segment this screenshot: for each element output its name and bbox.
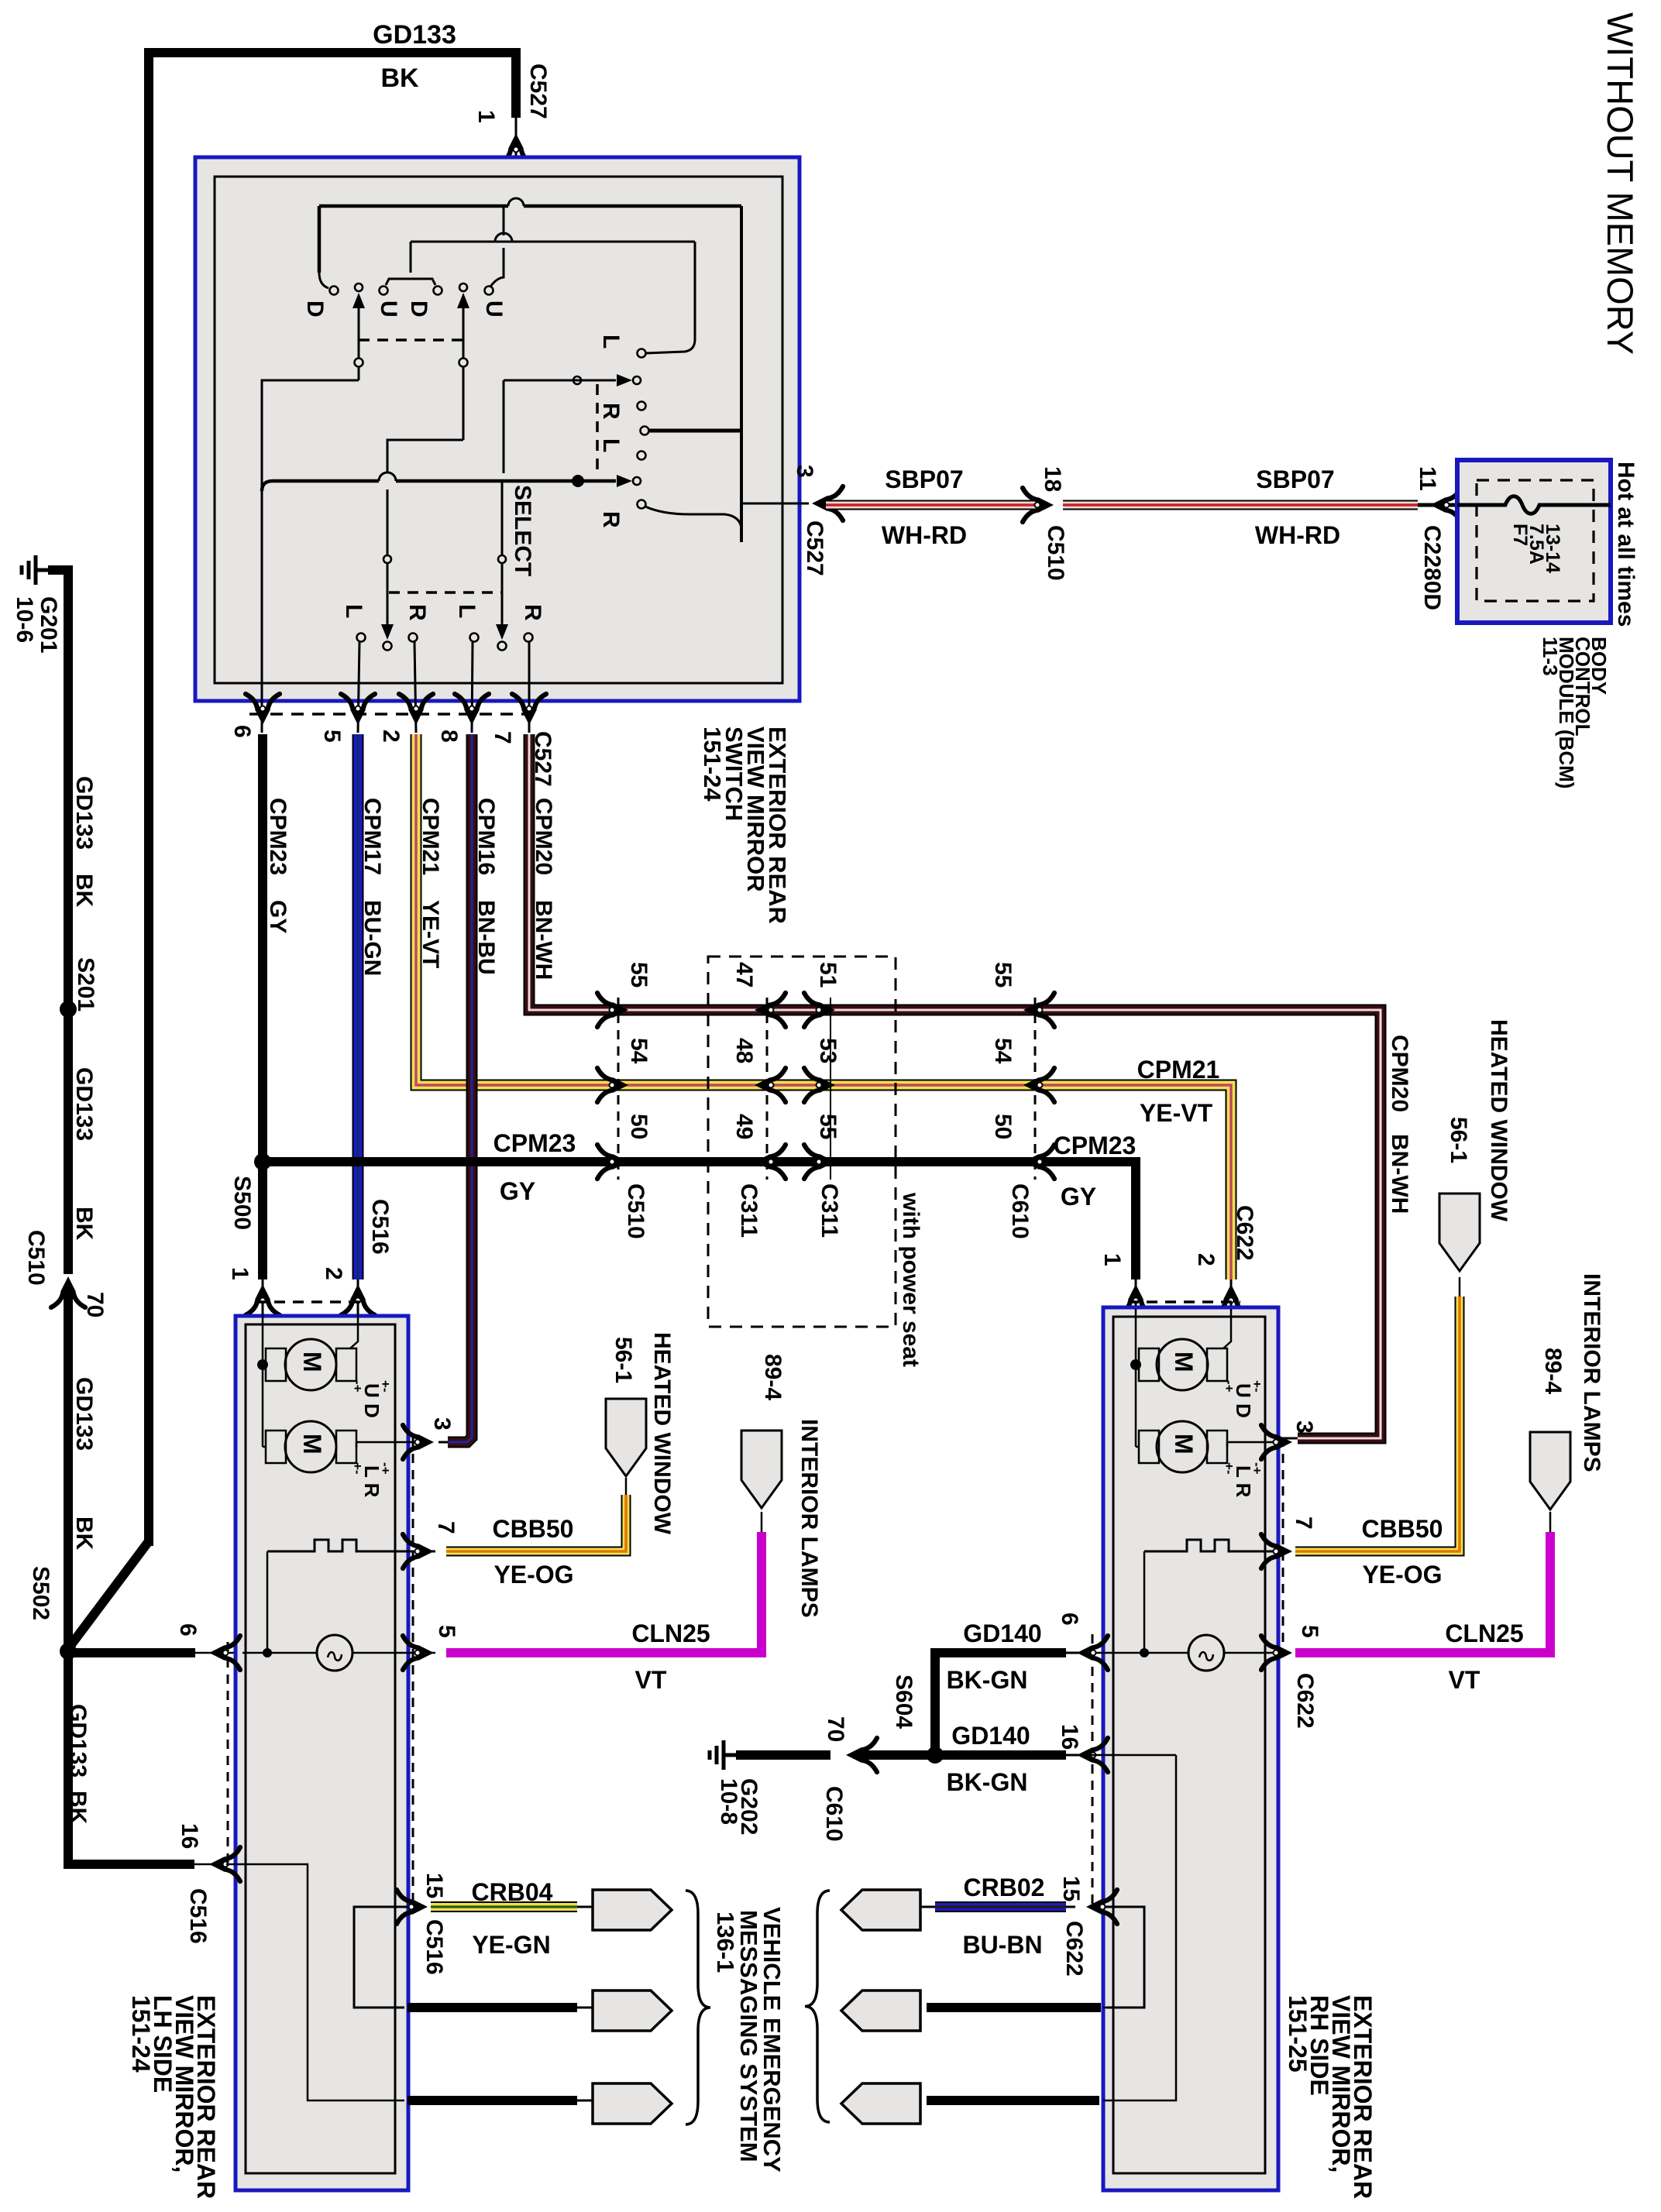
connector arrow 18 C510: [1023, 488, 1054, 522]
svg-text:SBP07: SBP07: [885, 465, 963, 493]
contact R lower: [638, 500, 646, 509]
svg-text:Hot at all times: Hot at all times: [1613, 462, 1639, 627]
connector arrow pin 7: [512, 694, 546, 725]
ground G201: [36, 568, 48, 572]
wire to vems 2: [408, 2003, 577, 2012]
wire CPM23 GY pin6: [258, 734, 267, 1157]
svg-text:CLN25: CLN25: [631, 1619, 710, 1647]
wire switch bus H1: [319, 204, 508, 208]
svg-text:D: D: [406, 301, 432, 318]
connector arrow pin 54: [1023, 1068, 1054, 1102]
fuse element F7: [1457, 496, 1611, 514]
wire pin1 internal RH: [1135, 1309, 1137, 1447]
svg-text:S500: S500: [229, 1176, 255, 1230]
svg-text:CRB04: CRB04: [472, 1878, 553, 1906]
splice S201: [60, 1001, 77, 1018]
connector INTERIOR LAMPS RH: [1530, 1432, 1570, 1510]
svg-text:CPM23: CPM23: [265, 798, 291, 875]
svg-text:GY: GY: [500, 1177, 535, 1205]
wire heater to lamp junction: [267, 1551, 269, 1653]
svg-text:R: R: [520, 604, 545, 621]
select throw L1: [357, 634, 366, 642]
wire CPM20 BN-WH pin7: [529, 734, 1381, 1438]
select arm left: [381, 624, 394, 640]
svg-text:7: 7: [1291, 1516, 1316, 1530]
select arm right: [501, 481, 504, 555]
lamp LH: [317, 1635, 352, 1671]
svg-text:GD133: GD133: [71, 1067, 97, 1141]
vems connector RH 1: [841, 1890, 920, 1930]
svg-text:55: 55: [815, 1114, 841, 1139]
connector arrow pin 51: [804, 993, 835, 1027]
dashed connector line left C516: [227, 1642, 229, 1867]
motor M UD RH: [1157, 1339, 1208, 1390]
select throw R1: [409, 634, 418, 642]
wire pin15 internal RH: [1096, 1907, 1144, 2008]
connector arrow RH pin6: [1077, 1636, 1108, 1670]
dashed fuse outline: [1477, 480, 1594, 601]
connector arrow LH pin2: [341, 1284, 375, 1315]
svg-text:VT: VT: [1449, 1666, 1480, 1694]
connector arrow LH pin16: [209, 1847, 240, 1881]
exterior rear view mirror LH box: [236, 1316, 408, 2190]
svg-text:3: 3: [1291, 1420, 1317, 1434]
motor M UD LH: [285, 1339, 336, 1390]
R/L movable arm upper: [504, 380, 616, 382]
svg-text:3: 3: [792, 465, 817, 478]
svg-text:CBB50: CBB50: [1362, 1515, 1443, 1543]
svg-text:CRB02: CRB02: [964, 1874, 1045, 1901]
wire bottom R contact to output: [645, 507, 741, 528]
connector arrow LH pin1: [246, 1284, 280, 1315]
svg-text:GD133: GD133: [373, 20, 456, 50]
wire CLN25 VT RH: [1295, 1532, 1550, 1653]
wire S500 to LH pin1: [258, 1166, 267, 1279]
svg-text:GD140: GD140: [951, 1722, 1030, 1750]
wire to vems 3 RH: [927, 2096, 1099, 2105]
connector arrow pin 5: [341, 694, 375, 725]
connector C510 70 on ground wire: [51, 1276, 85, 1307]
connector arrow 11 C2280D: [1430, 488, 1461, 522]
svg-text:C516: C516: [185, 1888, 211, 1944]
wire pin16 internal: [226, 1864, 404, 2100]
select throw L2: [470, 634, 479, 642]
wire pin2 internal RH: [1223, 1309, 1231, 1348]
dashed connector C510: [617, 998, 620, 1180]
UD movable arm 2: [459, 283, 467, 291]
R/L movable arm lower (bus end): [617, 475, 632, 487]
wire GD133 BK below C510: [68, 1287, 194, 1864]
wire UD2 common to select arm: [387, 440, 463, 472]
dashed connector line left C622: [1092, 1634, 1094, 1907]
svg-text:C516: C516: [421, 1919, 447, 1975]
svg-text:5: 5: [434, 1625, 459, 1638]
wire GD140 BK-GN to pin6: [935, 1653, 1066, 1755]
svg-text:C610: C610: [821, 1786, 847, 1842]
connector arrow pin 55: [1023, 993, 1054, 1027]
svg-text:YE-VT: YE-VT: [1140, 1099, 1213, 1127]
svg-text:M: M: [1170, 1434, 1198, 1455]
wire switch ground bus: [262, 481, 379, 491]
wire vems3 internal RH: [1103, 1755, 1176, 2100]
svg-text:15: 15: [1058, 1876, 1084, 1901]
svg-text:D: D: [302, 301, 328, 318]
mech link R/L: [596, 384, 599, 477]
mech link UD: [359, 338, 463, 342]
wire SBP07 WH-RD right segment: [1063, 500, 1418, 510]
wire GD133 BK from G201: [48, 570, 68, 1274]
dashed box with power seat: [708, 957, 896, 1327]
svg-text:5: 5: [1297, 1625, 1322, 1638]
svg-text:BK: BK: [71, 874, 97, 908]
svg-text:GY: GY: [1061, 1183, 1096, 1211]
wire CPM21 YE-VT pin2: [416, 734, 1231, 1279]
svg-text:C510: C510: [1043, 525, 1068, 581]
svg-text:YE-VT: YE-VT: [418, 900, 443, 968]
svg-text:6: 6: [175, 1623, 201, 1637]
svg-text:CBB50: CBB50: [493, 1515, 574, 1543]
lamp RH: [1188, 1635, 1224, 1671]
svg-text:11-3: 11-3: [1539, 637, 1562, 676]
wire U1-D2 bridge: [386, 279, 435, 285]
svg-text:C2280D: C2280D: [1419, 525, 1445, 610]
connector arrow pin 49: [755, 1145, 786, 1179]
connector arrow pin 50: [597, 1145, 628, 1179]
svg-text:C311: C311: [817, 1183, 842, 1238]
vems connector RH 3: [841, 2083, 920, 2124]
exterior rear view mirror RH box: [1103, 1307, 1278, 2190]
wire pin15 internal: [354, 1907, 413, 2008]
svg-text:M: M: [298, 1434, 326, 1455]
dashed connector C610: [1034, 998, 1037, 1180]
svg-text:54: 54: [626, 1038, 652, 1064]
svg-text:HEATED WINDOW: HEATED WINDOW: [649, 1332, 675, 1535]
svg-text:YE-OG: YE-OG: [493, 1561, 573, 1589]
heater resistor LH: [267, 1540, 435, 1551]
svg-text:55: 55: [626, 962, 652, 987]
svg-text:-+: -+: [1250, 1462, 1264, 1475]
svg-text:C510: C510: [623, 1183, 648, 1239]
dashed connector line top: [256, 1300, 367, 1303]
svg-text:CPM20: CPM20: [531, 798, 556, 875]
svg-text:7: 7: [490, 731, 515, 744]
svg-text:+-: +-: [1250, 1380, 1264, 1393]
contact D2: [434, 287, 442, 295]
svg-text:151-24: 151-24: [127, 1995, 155, 2073]
connector INTERIOR LAMPS LH: [741, 1431, 782, 1508]
svg-text:89-4: 89-4: [1540, 1348, 1566, 1394]
connector arrow pin 55: [804, 1145, 835, 1179]
contact common: [641, 427, 649, 435]
splice S604: [927, 1747, 944, 1764]
svg-text:-+: -+: [378, 1462, 393, 1475]
svg-text:CPM23: CPM23: [1054, 1132, 1137, 1159]
svg-text:M: M: [1170, 1352, 1198, 1372]
exterior rear view mirror switch box: [195, 157, 800, 701]
svg-text:48: 48: [731, 1038, 757, 1063]
svg-text:S502: S502: [28, 1566, 53, 1620]
svg-text:L: L: [598, 335, 624, 349]
connector arrow RH pin16: [1077, 1738, 1108, 1772]
svg-text:8: 8: [436, 730, 462, 743]
wire common thick to R/L center: [649, 429, 741, 433]
svg-text:C610: C610: [1007, 1183, 1033, 1239]
dashed connector C527 under switch: [249, 713, 542, 716]
vems connector LH 2: [593, 1990, 672, 2031]
svg-text:C516: C516: [367, 1199, 393, 1255]
brace LH: [686, 1891, 710, 2124]
svg-text:CPM16: CPM16: [473, 798, 499, 875]
svg-text:U: U: [376, 301, 401, 318]
svg-text:10-6: 10-6: [12, 596, 37, 643]
mech link select: [389, 591, 502, 594]
svg-text:53: 53: [815, 1038, 841, 1063]
svg-text:CPM21: CPM21: [1137, 1056, 1220, 1084]
svg-text:BK: BK: [71, 1207, 97, 1241]
splice on bus: [572, 475, 584, 487]
connector arrow RH pin2: [1214, 1284, 1248, 1315]
connector arrow pin 47: [755, 993, 786, 1027]
svg-text:SBP07: SBP07: [1256, 465, 1334, 493]
wire GD133 BK diagonal to S502: [70, 1541, 149, 1647]
svg-text:C527: C527: [802, 520, 827, 576]
wire CPM16 BN-BU pin8: [448, 734, 472, 1442]
svg-text:L: L: [454, 604, 480, 618]
select throw R2: [524, 634, 533, 642]
svg-text:WH-RD: WH-RD: [882, 521, 967, 549]
wire G202 to C610: [736, 1750, 830, 1760]
svg-text:11: 11: [1415, 466, 1440, 491]
svg-text:+-: +-: [378, 1380, 393, 1393]
connector arrow pin 48: [755, 1068, 786, 1102]
svg-text:136-1: 136-1: [712, 1911, 739, 1973]
svg-text:S201: S201: [73, 957, 98, 1012]
connector HEATED WINDOW LH: [606, 1399, 646, 1476]
svg-text:CLN25: CLN25: [1445, 1619, 1523, 1647]
svg-text:R: R: [598, 511, 624, 528]
svg-text:GD133: GD133: [71, 1377, 97, 1451]
vems connector LH 3: [593, 2083, 672, 2124]
svg-text:YE-OG: YE-OG: [1362, 1561, 1442, 1589]
connector arrow pin3 C527: [812, 486, 843, 520]
splice S500: [254, 1153, 271, 1170]
svg-text:SELECT: SELECT: [510, 485, 535, 576]
heater resistor RH: [1144, 1540, 1291, 1551]
svg-text:18: 18: [1040, 466, 1065, 492]
svg-text:L: L: [598, 438, 624, 452]
wire pin1 into switch: [515, 118, 518, 200]
wire lamp row: [242, 1652, 317, 1654]
connector arrow pin 6: [246, 694, 280, 725]
svg-text:GD133: GD133: [71, 776, 97, 850]
contact L upper: [638, 349, 646, 358]
wire C610 to S604: [860, 1750, 1066, 1760]
motor M LR LH: [285, 1421, 336, 1472]
wire CRB02 BU-BN: [935, 1901, 1066, 1912]
svg-text:C622: C622: [1292, 1673, 1318, 1729]
svg-text:1: 1: [473, 110, 499, 123]
connector arrow RH pin3: [1261, 1425, 1292, 1459]
svg-text:1: 1: [227, 1267, 253, 1280]
svg-text:6: 6: [229, 725, 255, 738]
connector arrow RH pin5: [1261, 1636, 1292, 1670]
svg-text:C622: C622: [1061, 1921, 1087, 1977]
wire H2 right to L contact: [694, 242, 696, 339]
connector line C311: [830, 998, 831, 1180]
ground G202: [724, 1753, 736, 1757]
svg-text:89-4: 89-4: [760, 1354, 786, 1400]
connector arrow RH pin15: [1086, 1890, 1117, 1924]
svg-text:BU-GN: BU-GN: [359, 900, 385, 976]
svg-text:47: 47: [731, 962, 757, 987]
svg-text:BK: BK: [65, 1791, 91, 1825]
svg-text:2: 2: [378, 730, 404, 743]
svg-text:M: M: [298, 1352, 326, 1372]
connector arrow pin 55: [597, 993, 628, 1027]
wire pin3 output: [741, 503, 809, 505]
wire SBP07 WH-RD left segment: [826, 500, 1039, 510]
wire CLN25 VT LH: [446, 1532, 762, 1653]
svg-text:151-24: 151-24: [699, 726, 726, 802]
motor M LR RH: [1157, 1421, 1208, 1472]
svg-text:BK-GN: BK-GN: [947, 1666, 1028, 1694]
svg-text:56-1: 56-1: [1446, 1117, 1471, 1163]
connector HEATED WINDOW RH: [1439, 1194, 1480, 1271]
svg-text:50: 50: [990, 1114, 1016, 1139]
svg-text:70: 70: [823, 1716, 848, 1742]
brace RH: [805, 1891, 830, 2122]
svg-text:151-25: 151-25: [1284, 1995, 1312, 2073]
connector arrow pin 50: [1023, 1145, 1054, 1179]
wire S502 to LH mirror pin 6: [68, 1648, 195, 1657]
svg-text:WH-RD: WH-RD: [1255, 521, 1340, 549]
svg-text:CPM17: CPM17: [359, 798, 385, 875]
vems connector LH 1: [593, 1890, 672, 1930]
dashed connector line right C516: [412, 1437, 414, 1910]
svg-text:WITHOUT MEMORY: WITHOUT MEMORY: [1600, 12, 1641, 355]
svg-text:BN-WH: BN-WH: [1387, 1134, 1412, 1214]
svg-text:CPM21: CPM21: [418, 798, 443, 875]
wire to vems 3: [408, 2096, 577, 2105]
svg-text:56-1: 56-1: [610, 1337, 636, 1383]
svg-text:BU-BN: BU-BN: [962, 1931, 1042, 1959]
connector arrow 70 C610: [846, 1738, 877, 1772]
wire CRB04 YE-GN: [431, 1901, 577, 1912]
svg-text:INTERIOR LAMPS: INTERIOR LAMPS: [796, 1419, 822, 1618]
svg-text:5: 5: [319, 730, 345, 743]
connector arrow LH pin15: [397, 1890, 428, 1924]
svg-text:7: 7: [433, 1521, 459, 1534]
svg-text:CPM20: CPM20: [1387, 1035, 1412, 1112]
wire pin16 internal RH: [1078, 1754, 1176, 1757]
wire to vems 2 RH: [927, 2003, 1101, 2012]
svg-text:50: 50: [626, 1114, 652, 1139]
connector arrow RH pin1: [1119, 1284, 1153, 1315]
contact L lower: [638, 452, 646, 460]
svg-text:YE-GN: YE-GN: [472, 1931, 550, 1959]
svg-text:BK: BK: [380, 64, 419, 93]
wire switch bus H2: [411, 241, 695, 243]
wire pin2 internal: [350, 1309, 358, 1348]
svg-text:16: 16: [1057, 1724, 1082, 1750]
contact R upper: [638, 402, 646, 410]
svg-text:L: L: [341, 604, 366, 618]
svg-text:BN-BU: BN-BU: [473, 900, 499, 975]
dashed connector line top RH: [1128, 1300, 1240, 1303]
svg-text:BK-GN: BK-GN: [947, 1768, 1028, 1796]
svg-text:GD133: GD133: [65, 1704, 91, 1777]
wire heater to lamp junction RH: [1143, 1551, 1146, 1653]
connector arrow LH pin7: [403, 1534, 434, 1568]
svg-text:C622: C622: [1232, 1205, 1257, 1261]
body control module fuse box: [1457, 460, 1611, 623]
connector arrow pin 8: [455, 694, 489, 725]
splice S502: [60, 1643, 77, 1660]
svg-text:10-8: 10-8: [716, 1778, 741, 1825]
wire U2 to H1: [490, 248, 504, 287]
svg-text:CPM23: CPM23: [493, 1129, 576, 1157]
svg-text:R: R: [598, 403, 624, 420]
wire CBB50 YE-OG RH: [1295, 1297, 1460, 1551]
svg-text:G201: G201: [36, 596, 61, 653]
contact D1: [330, 287, 339, 295]
svg-text:15: 15: [421, 1873, 447, 1898]
wires select throws to pins: [358, 642, 359, 733]
svg-text:C311: C311: [736, 1183, 762, 1238]
svg-text:R: R: [404, 604, 430, 621]
svg-text:C510: C510: [23, 1230, 49, 1286]
svg-text:2: 2: [321, 1267, 346, 1280]
svg-text:BK: BK: [71, 1516, 97, 1551]
wire GD133 BK top feed: [149, 53, 516, 1546]
vems connector RH 2: [841, 1990, 920, 2031]
svg-text:C527: C527: [525, 64, 551, 119]
connector arrow LH pin3: [403, 1425, 434, 1459]
wire M-LR to pin3 RH: [1226, 1442, 1229, 1447]
svg-text:GY: GY: [265, 900, 291, 933]
svg-text:51: 51: [815, 962, 841, 987]
connector arrow LH pin6: [209, 1636, 240, 1670]
connector arrow pin 2: [399, 694, 433, 725]
dashed connector C311 inner: [766, 998, 769, 1180]
wire H1 right vertical: [740, 206, 743, 542]
wire UD1 common to pin6: [262, 380, 359, 733]
svg-text:BN-WH: BN-WH: [531, 900, 556, 980]
svg-text:49: 49: [731, 1114, 757, 1139]
connector arrow C527 pin 1: [499, 133, 533, 164]
svg-text:70: 70: [82, 1292, 108, 1317]
svg-text:GD140: GD140: [963, 1619, 1041, 1647]
dashed connector line right C622: [1282, 1437, 1284, 1650]
contact U2: [485, 287, 493, 295]
svg-text:3: 3: [429, 1417, 455, 1431]
svg-text:U: U: [481, 301, 507, 318]
svg-text:2: 2: [1193, 1253, 1219, 1266]
wire CBB50 YE-OG LH: [446, 1495, 626, 1551]
svg-text:55: 55: [990, 962, 1016, 987]
svg-text:16: 16: [177, 1823, 202, 1849]
connector arrow RH pin7: [1261, 1534, 1292, 1568]
svg-text:INTERIOR LAMPS: INTERIOR LAMPS: [1579, 1273, 1604, 1472]
contact U1: [380, 287, 388, 295]
wire lamp row RH: [1078, 1652, 1188, 1654]
svg-text:54: 54: [990, 1038, 1016, 1064]
connector arrow pin 53: [804, 1068, 835, 1102]
connector arrow pin 54: [597, 1068, 628, 1102]
svg-text:with power seat: with power seat: [898, 1192, 923, 1367]
UD movable arm 1: [355, 283, 363, 291]
connector arrow LH pin5: [403, 1636, 434, 1670]
